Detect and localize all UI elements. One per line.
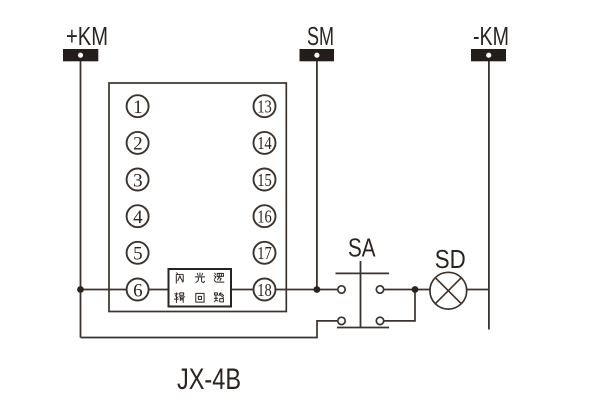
svg-text:JX-4B: JX-4B — [177, 363, 241, 396]
svg-text:15: 15 — [257, 170, 272, 190]
wire -KM vertical drop — [488, 61, 490, 330]
pin 18 — [254, 279, 276, 301]
pin 14 — [254, 132, 276, 154]
SA top bar — [336, 272, 390, 274]
SA actuator stem — [360, 261, 362, 328]
wire pin6 row: +KM junction to SA contact a1 — [81, 289, 342, 291]
pin 3 — [127, 169, 149, 192]
svg-text:1: 1 — [133, 97, 143, 118]
SA contact b1 — [338, 317, 345, 324]
svg-text:+KM: +KM — [66, 21, 108, 51]
char 回 — [196, 293, 204, 302]
switch SA — [336, 261, 390, 328]
char 逻 — [214, 273, 224, 282]
char 路 — [214, 293, 223, 302]
junction node at lamp branch — [412, 286, 419, 293]
svg-text:13: 13 — [257, 97, 272, 117]
pin 13 — [254, 95, 276, 117]
pin 4 — [127, 205, 149, 228]
pin 2 — [127, 132, 149, 155]
pin 1 — [127, 95, 149, 118]
svg-text:SD: SD — [435, 246, 466, 274]
svg-text:5: 5 — [133, 244, 143, 265]
pin 16 — [254, 205, 276, 227]
wire +KM vertical drop — [80, 61, 82, 338]
wire SM vertical drop — [316, 61, 318, 290]
wire bottom return from +KM to SA contact b1 — [81, 321, 339, 338]
char 光 — [195, 273, 204, 282]
svg-text:18: 18 — [257, 280, 272, 300]
wire SA contact b2 up to lamp node — [384, 290, 415, 321]
relay case outline JX-4B — [109, 83, 286, 312]
char 闪 — [176, 273, 183, 283]
SA bottom bar — [337, 327, 389, 329]
svg-text:17: 17 — [257, 243, 272, 263]
svg-text:3: 3 — [133, 170, 143, 191]
pin 15 — [254, 169, 276, 191]
lamp SD — [430, 272, 467, 309]
svg-text:16: 16 — [257, 207, 272, 227]
junction node at SM / pin18 — [314, 286, 321, 293]
svg-text:SA: SA — [348, 235, 376, 263]
SA contact a2 — [376, 286, 383, 293]
char 辑 — [174, 293, 184, 303]
svg-text:SM: SM — [307, 21, 334, 51]
pin 17 — [254, 242, 276, 264]
svg-text:2: 2 — [133, 134, 143, 155]
pin 6 — [127, 279, 149, 302]
flash logic block (闪光逻辑回路) — [169, 269, 232, 307]
svg-text:-KM: -KM — [473, 21, 509, 51]
wire lamp to -KM line — [467, 289, 489, 291]
wire SA contact a2 to lamp — [380, 289, 430, 291]
terminal -KM — [471, 21, 509, 61]
pin 5 — [127, 242, 149, 265]
SA contact b2 — [376, 317, 383, 324]
svg-text:4: 4 — [133, 207, 143, 228]
svg-text:14: 14 — [257, 133, 272, 153]
terminal SM — [300, 21, 335, 61]
SA contact a1 — [338, 286, 345, 293]
terminal +KM — [63, 21, 108, 61]
junction node at +KM / pin6 — [77, 286, 84, 293]
svg-text:6: 6 — [133, 280, 143, 301]
